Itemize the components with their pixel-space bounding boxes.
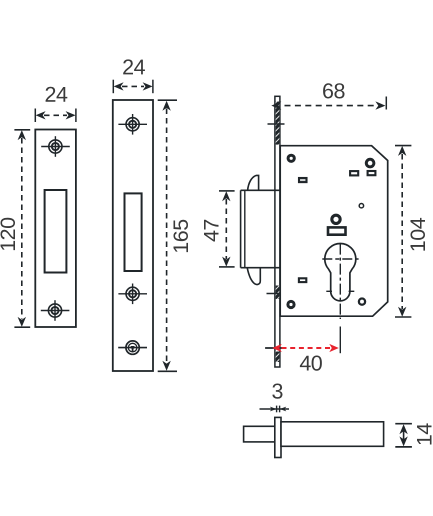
dimension 104 (body height) xyxy=(395,146,430,317)
body hole bottom-right xyxy=(359,299,365,305)
svg-text:3: 3 xyxy=(271,379,283,403)
faceplate outline xyxy=(113,100,153,371)
strike plate top screw hole xyxy=(41,136,70,157)
faceplate bottom fixing hole xyxy=(118,341,147,354)
faceplate top screw hole xyxy=(118,114,147,135)
svg-text:24: 24 xyxy=(122,55,145,79)
bolt bottom ear xyxy=(247,268,260,285)
follower plate xyxy=(328,227,346,234)
dimension 24 (faceplate width) xyxy=(113,55,153,93)
side view bolt xyxy=(244,426,275,442)
strip hatched section top xyxy=(276,102,280,145)
lock body outline xyxy=(280,146,388,317)
slot D below top-right hole xyxy=(368,171,376,175)
bolt body xyxy=(241,190,281,267)
small hole right xyxy=(359,204,363,208)
svg-text:14: 14 xyxy=(412,423,433,446)
cylinder vertical centerline xyxy=(339,244,341,354)
strip hatched section middle xyxy=(276,286,280,300)
body hole top-right xyxy=(366,159,374,167)
svg-text:104: 104 xyxy=(406,217,430,252)
dimension 165 (faceplate height) xyxy=(158,100,193,371)
strike plate bottom screw hole xyxy=(41,300,70,321)
euro cylinder hole xyxy=(325,243,356,300)
body screw hole bottom-left xyxy=(288,301,294,307)
follower hub xyxy=(332,215,340,223)
slot A upper-left xyxy=(299,178,307,182)
dimension 3 (faceplate thickness) xyxy=(260,379,290,412)
cylinder horizontal centerline xyxy=(322,258,358,260)
slot C lower-left xyxy=(299,278,306,282)
svg-text:47: 47 xyxy=(200,219,224,242)
dimension 68 (body depth) xyxy=(271,79,386,110)
svg-text:68: 68 xyxy=(322,79,345,103)
lock faceplate strip xyxy=(275,96,280,367)
svg-text:165: 165 xyxy=(169,219,193,254)
faceplate middle screw hole xyxy=(118,284,147,305)
svg-text:24: 24 xyxy=(45,83,68,107)
strip hatched section bottom xyxy=(276,352,280,363)
dimension 40 (backset, red) xyxy=(265,344,339,376)
strip tick middle xyxy=(267,293,286,295)
svg-text:40: 40 xyxy=(299,351,322,375)
slot B upper-right xyxy=(350,171,358,175)
side view faceplate xyxy=(275,417,281,457)
svg-text:120: 120 xyxy=(0,217,20,252)
body screw hole top-left xyxy=(288,155,294,161)
side view lock case xyxy=(281,422,384,447)
dimension 24 (strike plate width) xyxy=(35,83,76,122)
strike plate outline xyxy=(35,130,76,328)
faceplate slot xyxy=(125,193,142,271)
dimension 47 (bolt height) xyxy=(200,191,235,267)
strike plate slot xyxy=(45,190,67,273)
bolt top ear xyxy=(248,175,259,190)
dimension 14 (case thickness) xyxy=(395,423,433,447)
dimension 120 (strike plate height) xyxy=(0,130,30,327)
strip tick upper xyxy=(268,123,285,125)
